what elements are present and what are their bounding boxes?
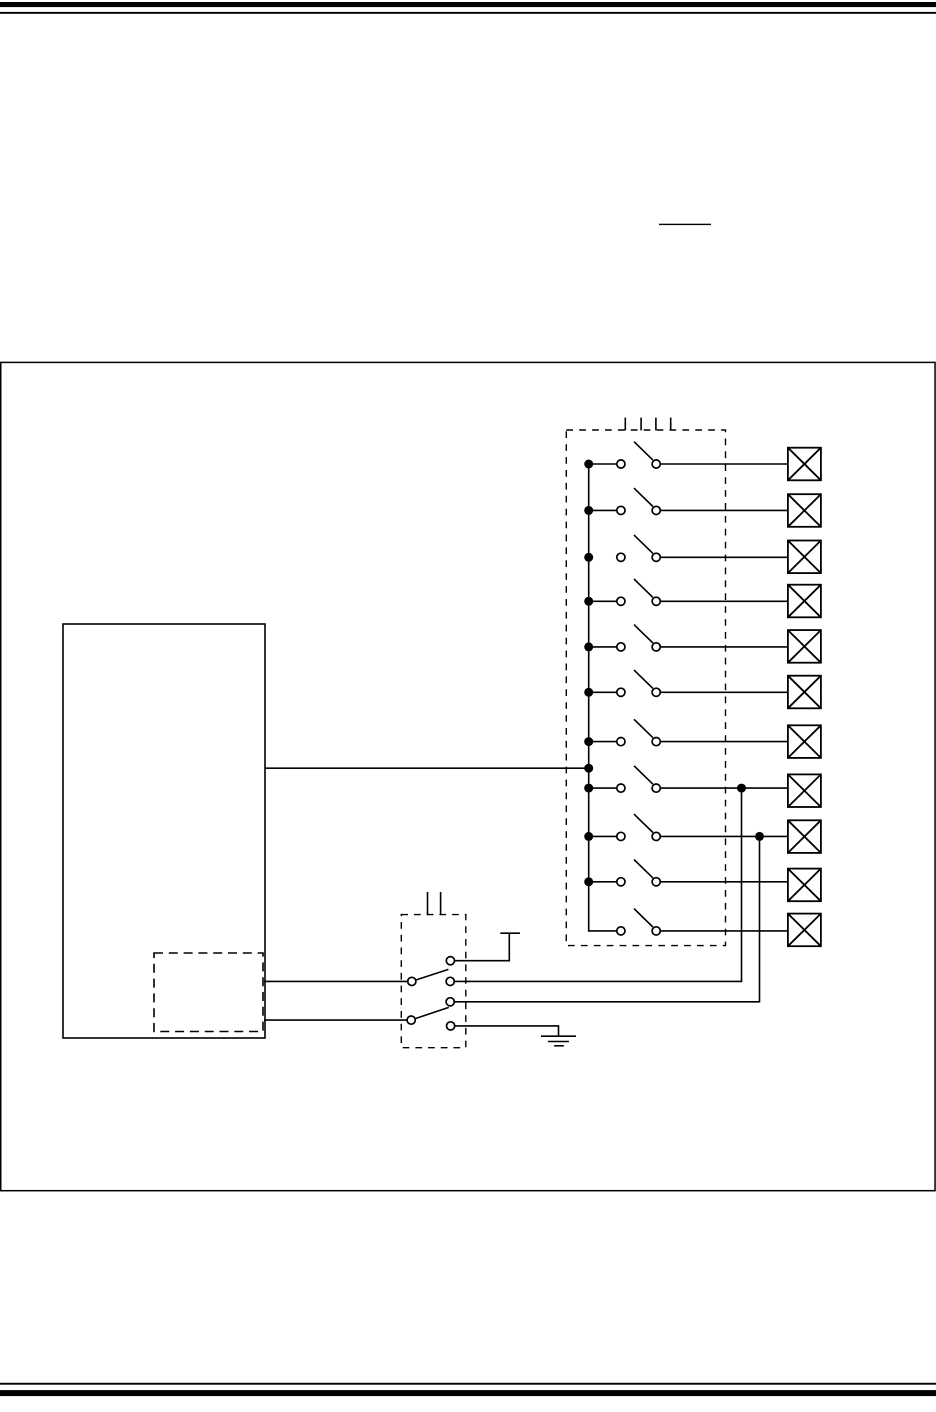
lamp L10 (crossed box) xyxy=(788,869,821,902)
key switch S4 (row 4) xyxy=(584,579,788,606)
wire: contact 1a to terminal T1 xyxy=(455,933,510,961)
key switch S7 (row 7) xyxy=(584,719,788,746)
wire: controller U1 to row bus xyxy=(265,767,589,769)
selector connector pin stubs xyxy=(428,892,441,915)
wire: row 9 tap down to selector contact xyxy=(454,836,759,1001)
key switch S3 (row 3) xyxy=(584,535,788,562)
wire: contact 2b to ground xyxy=(455,1026,559,1036)
junction: controller wire / bus xyxy=(584,764,593,773)
wire: row 8 tap down to selector contact xyxy=(454,788,741,981)
lamp L1 (crossed box) xyxy=(788,448,821,481)
wire: J1 to selector pole 1 xyxy=(264,980,408,982)
selector pole 1 xyxy=(408,969,449,985)
lamp L4 (crossed box) xyxy=(788,585,821,618)
matrix connector pin stubs xyxy=(625,418,670,431)
selector contact 1a (to terminal) xyxy=(446,957,454,965)
selector contact 2a (to row 9 tap) xyxy=(446,998,454,1006)
key switch S10 (row 10) xyxy=(584,860,788,887)
key switch S2 (row 2) xyxy=(584,488,788,515)
lamp L9 (crossed box) xyxy=(788,820,821,853)
lamp L3 (crossed box) xyxy=(788,541,821,574)
connector J1 (dashed box) xyxy=(154,953,263,1032)
lamp L2 (crossed box) xyxy=(788,494,821,527)
row bus (common line) xyxy=(589,464,617,931)
lamp L5 (crossed box) xyxy=(788,630,821,663)
lamp L7 (crossed box) xyxy=(788,725,821,758)
junction: row 8 tap xyxy=(737,784,746,793)
lamp L6 (crossed box) xyxy=(788,676,821,709)
key switch S1 (row 1) xyxy=(584,442,788,469)
terminal T1 crossbar xyxy=(500,932,520,934)
key switch S8 (row 8) xyxy=(584,766,788,793)
controller box U1 xyxy=(63,624,265,1038)
junction: row 9 tap xyxy=(755,832,764,841)
selector pole 2 xyxy=(407,1007,449,1024)
key switch S5 (row 5) xyxy=(584,625,788,652)
key switch S11 (row 11) xyxy=(617,909,788,935)
lamp L11 (crossed box) xyxy=(788,914,821,947)
lamp L8 (crossed box) xyxy=(788,774,821,807)
ground symbol xyxy=(541,1036,576,1046)
selector contact 1b (to row 8 tap) xyxy=(446,977,454,985)
selector contact 2b (to ground) xyxy=(447,1022,455,1030)
keyboard matrix enclosure (dotted box) xyxy=(566,430,725,946)
selector switch S12 enclosure (dotted box) xyxy=(401,915,466,1048)
wire: J1 to selector pole 2 xyxy=(264,1019,407,1021)
key switch S6 (row 6) xyxy=(584,670,788,697)
key switch S9 (row 9) xyxy=(584,814,788,841)
